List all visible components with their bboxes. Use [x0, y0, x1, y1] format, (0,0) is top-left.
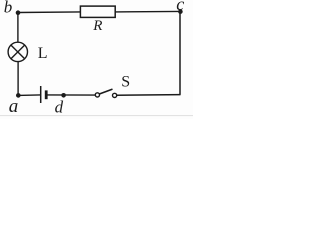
lamp L [8, 42, 27, 61]
wire a to battery [18, 94, 40, 97]
node a dot [16, 93, 21, 98]
wire d to switch [47, 94, 96, 96]
wire left vertical lower (lamp to a) [17, 62, 19, 96]
battery cell: short plate [45, 90, 48, 99]
battery cell: long plate [40, 86, 42, 103]
wire bottom right (switch to corner) [117, 94, 181, 97]
svg-text:R: R [92, 18, 102, 34]
switch S lever [100, 89, 113, 94]
node d dot [61, 93, 66, 98]
svg-text:b: b [4, 0, 13, 17]
wire left vertical upper (b to lamp) [17, 13, 19, 43]
svg-text:L: L [38, 45, 48, 62]
node c dot [178, 9, 183, 14]
svg-text:d: d [55, 97, 64, 116]
wire R to c [115, 10, 180, 13]
wire right vertical [179, 11, 181, 94]
node b dot [16, 10, 21, 15]
svg-text:a: a [9, 96, 18, 117]
wire top-left b to R [18, 11, 81, 14]
svg-text:S: S [121, 74, 130, 91]
faint scan line bottom [0, 115, 193, 117]
switch S right terminal [113, 93, 117, 97]
resistor R [80, 6, 115, 17]
svg-text:c: c [176, 0, 184, 14]
switch S left terminal [95, 93, 99, 97]
